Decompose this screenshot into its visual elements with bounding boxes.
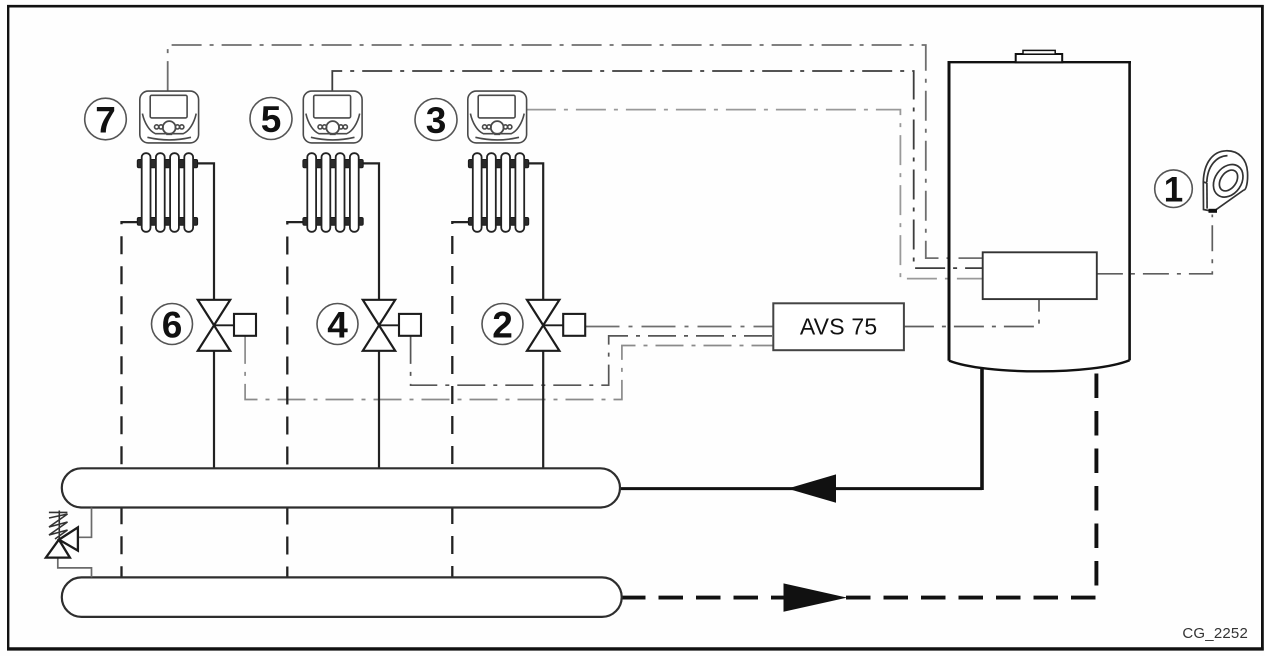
svg-text:4: 4 [327, 305, 348, 346]
boiler control box [983, 252, 1097, 299]
wire: zone 5 flow pipe (dashed) [287, 222, 303, 578]
wire: boiler control box to outdoor sensor 1 [1097, 215, 1212, 274]
wire: bypass top connection [78, 508, 92, 538]
radiator zone 7 [137, 153, 197, 232]
svg-text:2: 2 [492, 305, 513, 346]
radiator zone 5 [303, 153, 363, 232]
wire: zone 7 return pipe (radiator to valve 6 to flow manifold) [198, 163, 215, 300]
wire: bypass bottom connection [58, 558, 92, 578]
room unit 7 [140, 91, 199, 143]
wire: room unit 3 to boiler control box [526, 110, 983, 279]
wire: valve 4 actuator to AVS 75 [411, 336, 774, 385]
radiator zone 3 [468, 153, 528, 232]
wire: zone 3 flow pipe (dashed) [452, 222, 468, 578]
label 4 [317, 304, 358, 345]
label 7 [85, 98, 127, 140]
module AVS 75 [773, 303, 904, 350]
wire: boiler return pipe (solid, manifold to boiler) [618, 487, 982, 490]
svg-text:1: 1 [1164, 171, 1183, 210]
bypass valve body [59, 527, 78, 550]
svg-text:5: 5 [261, 99, 282, 140]
arrow on flow pipe (pointing right) [784, 583, 848, 611]
wire: boiler flow pipe (dashed, boiler to manifold) [621, 365, 1096, 598]
label 2 [482, 304, 523, 345]
label 3 [415, 99, 457, 141]
label 1 [1155, 170, 1193, 208]
room unit 3 [468, 91, 527, 143]
wire: zone 3 return pipe (radiator to valve 2 to manifold) [529, 163, 544, 300]
label 6 [152, 304, 193, 345]
wire: valve 6 actuator to AVS 75 [245, 336, 773, 400]
wire: zone 5 return pipe (radiator to valve 4 to manifold) [363, 163, 379, 300]
boiler top cap [1016, 54, 1062, 62]
return manifold (top) [62, 468, 620, 507]
arrow on return pipe (pointing left) [788, 474, 837, 502]
svg-text:7: 7 [95, 100, 116, 141]
svg-text:6: 6 [162, 305, 183, 346]
svg-text:AVS 75: AVS 75 [800, 314, 878, 340]
spring of bypass valve [49, 511, 68, 513]
label 5 [250, 98, 292, 140]
wire: room unit 7 to boiler control box [168, 45, 983, 258]
valve 4 [363, 300, 421, 351]
valve 6 [198, 300, 256, 351]
wire: room unit 5 to boiler control box [332, 71, 982, 268]
svg-text:3: 3 [426, 100, 447, 141]
outdoor sensor 1 [1203, 151, 1249, 212]
wire: zone 7 flow pipe (dashed) [122, 222, 138, 578]
wire: valve 2 actuator to AVS 75 [586, 326, 774, 328]
room unit 5 [303, 91, 362, 143]
flow manifold (bottom) [62, 577, 622, 617]
boiler body [948, 62, 1132, 371]
svg-text:CG_2252: CG_2252 [1182, 625, 1248, 642]
wire: AVS 75 to boiler control box [904, 299, 1039, 326]
valve 2 [527, 300, 585, 351]
